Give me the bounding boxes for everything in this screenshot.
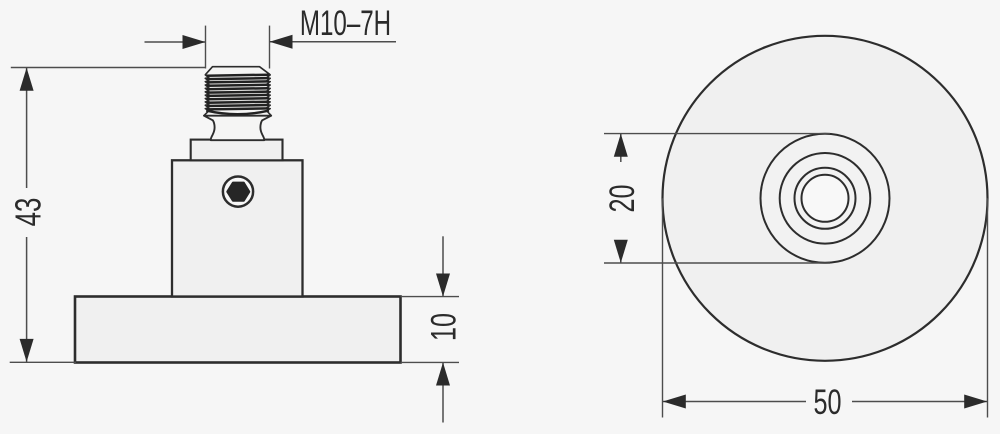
ring Ø20 (body) [761,134,890,263]
arrow right (50 right) [964,395,987,409]
bottom extension line [10,361,76,363]
dimension M10-7H [145,26,397,69]
arrow down (43 bottom) [20,339,34,362]
ring collar [780,153,871,244]
arrow up (43 top) [20,68,34,91]
arrow down (20 bottom) [614,240,628,263]
arrow down (10 top) [436,274,450,297]
neck [204,116,271,141]
collar step [191,140,283,161]
top extension line [11,67,206,69]
dimension 20 [604,134,830,263]
thread crest lines [207,75,269,110]
hex socket screw [223,177,253,207]
svg-text:43: 43 [8,198,48,227]
arrow left (M10 right) [270,35,293,49]
svg-text:M10–7H: M10–7H [300,5,391,43]
ring neck [802,175,849,222]
arrow up (20 top) [614,134,628,157]
dimension 50 [663,198,988,417]
arrow left (50 left) [663,395,686,409]
svg-text:20: 20 [603,184,642,212]
arrow up (10 bottom) [436,363,450,386]
svg-text:50: 50 [813,383,841,422]
dimension 10 [401,236,460,422]
threaded stud M10 [204,67,271,116]
ring stud [795,168,856,229]
base plate [75,297,401,363]
arrow right (M10 left) [183,35,206,49]
dimension 43 [10,68,206,363]
svg-text:10: 10 [425,313,464,341]
thread runout arc [206,111,269,115]
outer disc Ø50 [663,36,988,361]
dim line [26,68,28,188]
body block [172,160,303,296]
